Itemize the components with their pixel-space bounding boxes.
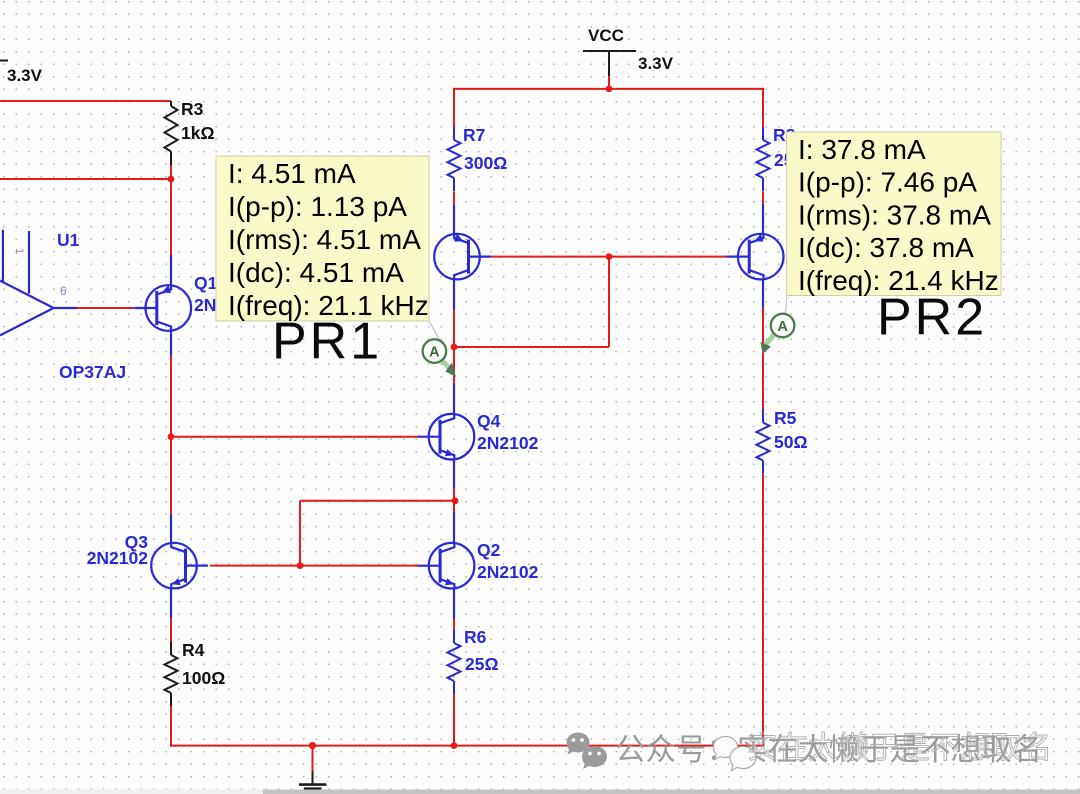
svg-text:I(p-p): 1.13 pA: I(p-p): 1.13 pA [228,191,407,222]
resistor R6 [448,630,461,694]
junction node ground [309,742,316,749]
svg-text:I(dc): 4.51 mA: I(dc): 4.51 mA [228,257,404,288]
svg-text:U1: U1 [57,230,80,250]
pin stub PR2 transistor bottom [762,280,764,308]
svg-text:R4: R4 [182,640,205,660]
probe PR1 leader line [429,321,443,346]
svg-text:R3: R3 [181,99,204,119]
svg-text:PR2: PR2 [877,289,987,347]
svg-text:I(dc): 37.8 mA: I(dc): 37.8 mA [798,232,974,263]
wire: R6 to bottom rail [453,694,455,746]
wire: second rail to R3 bottom junction [0,178,171,180]
pin stub Q2 bottom [453,589,455,619]
wire: R3 bottom to node [170,165,172,256]
svg-text:Q4: Q4 [477,411,501,431]
wire: Q3-Q2 base row [210,565,418,567]
pin stub PR1 transistor top [453,205,455,235]
svg-text:1kΩ: 1kΩ [181,123,215,143]
svg-text:R7: R7 [463,125,485,145]
probe PR1 tooltip [216,156,429,321]
resistor R7 [448,127,461,191]
svg-text:OP37AJ: OP37AJ [59,362,126,382]
power symbol top-left (clipped) [0,61,43,86]
wire: PR1 transistor emitter down to Q4 [453,309,455,384]
pin stub Q4 top [453,384,455,415]
wire: R5 to bottom rail [762,474,764,747]
svg-text:6: 6 [60,284,67,298]
wire: op-amp output to Q1 base [77,307,134,309]
junction node R6/rail [451,742,458,749]
wire: VCC stub red part [608,75,610,89]
junction node Q1/Q3 column [168,433,175,440]
wire: bottom ground rail [170,745,763,747]
pin stub Q2 top [453,513,455,544]
svg-text:50Ω: 50Ω [774,432,808,452]
transistor PR2 pass [727,234,784,280]
wire: R7 to PR1 transistor [453,191,455,205]
svg-text:PR1: PR1 [272,313,382,371]
svg-text:I(rms): 37.8 mA: I(rms): 37.8 mA [798,199,991,230]
transistor Q2 [418,543,475,589]
junction node VCC [606,86,613,93]
VCC power symbol [583,26,674,76]
wire: right column rail to R8 [762,88,764,127]
transistor Q3 (mirrored) [151,543,208,589]
wire: top-left rail to R3 top [0,100,171,102]
svg-text:Q1: Q1 [194,273,218,293]
svg-text:1: 1 [13,248,25,254]
wire: base row between PR transistors [491,256,727,258]
svg-text:I(rms): 4.51 mA: I(rms): 4.51 mA [228,224,421,255]
wire: row node A to right column [454,346,609,348]
svg-text:I: 4.51 mA: I: 4.51 mA [228,158,356,189]
svg-text:I: 37.8 mA: I: 37.8 mA [798,134,926,165]
wire: vertical link [608,257,610,347]
svg-text:100Ω: 100Ω [182,668,225,688]
probe PR2 ammeter symbol [761,314,795,354]
svg-text:2N2102: 2N2102 [477,562,539,582]
wire: node row to Q2 collector [300,500,455,502]
pin stub PR1 transistor bottom [453,280,455,310]
wire: PR2 transistor emitter down to R5 [762,307,764,410]
svg-text:A: A [429,345,440,361]
ground [299,771,327,789]
svg-text:VCC: VCC [588,26,624,45]
watermark icon (wechat bubbles) [566,733,607,770]
junction node Q4/Q2 [452,497,459,504]
junction node base link [297,562,304,569]
svg-text:R6: R6 [464,627,487,647]
svg-text:25Ω: 25Ω [465,654,499,674]
wire: R4 to bottom rail [170,706,172,747]
pin stub PR2 transistor top [762,205,764,235]
wire: Q4 emitter to node [453,488,455,513]
transistor Q1 [134,285,191,331]
svg-text:A: A [777,319,788,335]
junction node R3/rail [168,176,175,183]
pin stub Q1 collector [170,255,172,286]
probe PR1 ammeter symbol [423,339,456,377]
wire: Q2 emitter to R6 [453,618,455,630]
svg-text:R5: R5 [774,408,797,428]
scrollbar thumb [263,790,1080,794]
pin stub Q4 bottom [453,460,455,489]
pin stub Q3 emitter [170,588,172,618]
svg-text:3.3V: 3.3V [7,66,43,85]
wire: ground stub [312,746,314,772]
resistor R5 [757,410,770,474]
probe PR2 tooltip [787,132,1002,296]
wire: vertical to base row [299,501,301,566]
svg-text:2N2102: 2N2102 [477,433,539,453]
watermark ghost icon [713,737,756,771]
svg-text:2N2102: 2N2102 [87,548,149,568]
pin stub Q1 emitter [170,331,172,356]
wire: Q3 emitter to R4 [170,617,172,642]
wire: row to Q4 base [171,436,418,438]
transistor PR1 pass (mirrored) [434,234,491,280]
transistor Q4 [418,414,475,460]
op-amp U1 [0,230,77,336]
resistor R8 [757,127,770,191]
wire: Q1 emitter down [170,355,172,515]
probe PR2 leader line [783,296,787,340]
junction node A row [451,344,458,351]
wire: R8 to PR2 transistor [762,191,764,205]
resistor R3 [165,101,178,165]
svg-text:300Ω: 300Ω [464,153,507,173]
resistor R4 [165,642,178,706]
svg-text:I(p-p): 7.46 pA: I(p-p): 7.46 pA [798,167,977,198]
scrollbar track [0,790,1080,794]
junction node base row [606,253,613,260]
pin stub Q3 collector [170,515,172,544]
svg-text:3.3V: 3.3V [638,54,674,73]
svg-text:Q2: Q2 [477,540,501,560]
svg-text:实在太懒于是不想取名: 实在太懒于是不想取名 [747,731,1052,765]
wire: top VCC rail [454,88,763,90]
wire: rail to R7 [453,88,455,127]
